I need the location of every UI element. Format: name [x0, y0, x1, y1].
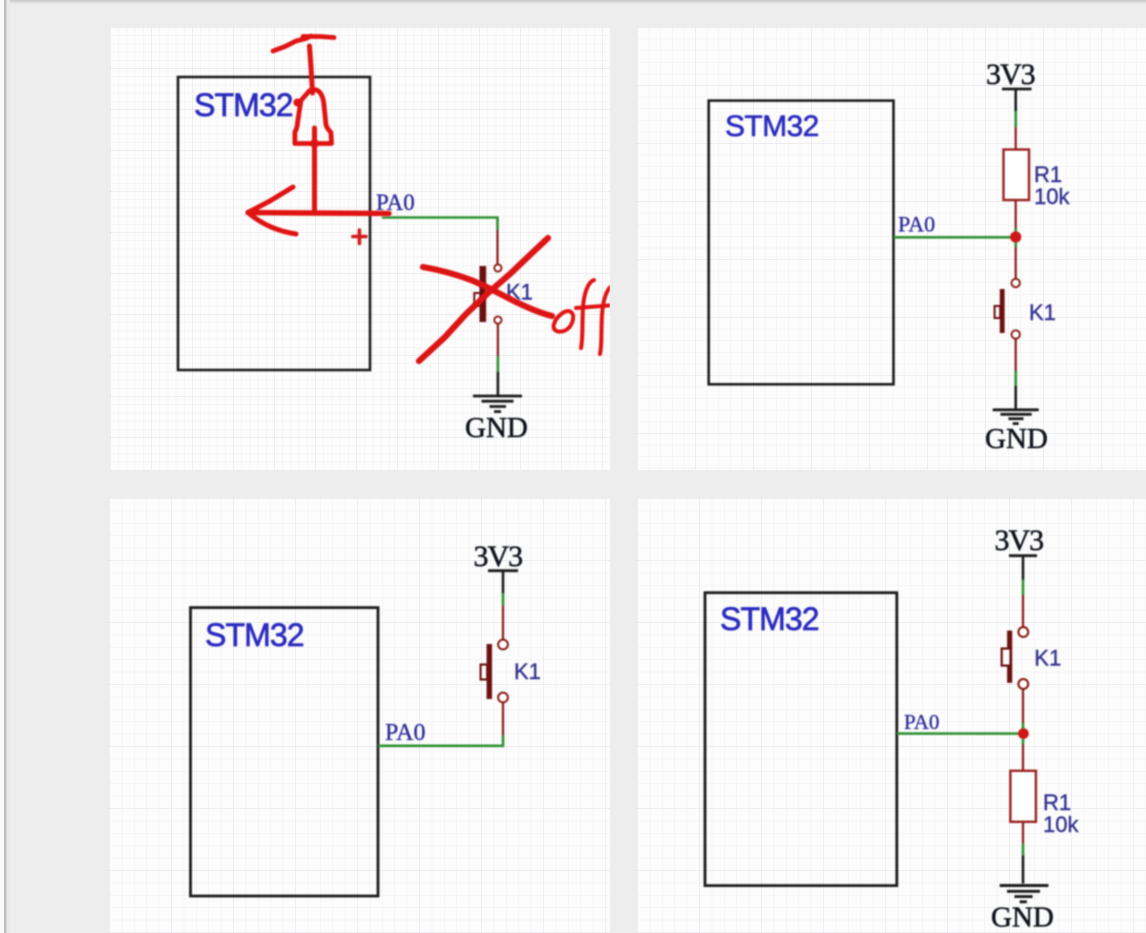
IC STM32 box — [191, 608, 379, 896]
svg-text:K1: K1 — [514, 659, 541, 684]
svg-text:PA0: PA0 — [385, 720, 425, 746]
left scrollbar strip — [0, 0, 4, 933]
wire 3V3 to switch — [1022, 580, 1025, 627]
wire switch to node — [1022, 689, 1024, 729]
pin label PA0 — [904, 710, 939, 734]
svg-text:K1: K1 — [1029, 300, 1056, 325]
svg-text:3V3: 3V3 — [474, 540, 523, 573]
IC STM32 box — [705, 593, 897, 886]
wire R1 to ground — [1022, 822, 1024, 884]
ground GND — [465, 396, 528, 444]
junction node PA0 — [1018, 728, 1029, 739]
wire 3V3 to R1 — [1014, 111, 1017, 149]
resistor R1 10k — [1010, 771, 1079, 837]
IC STM32 box — [178, 77, 370, 370]
switch K1 — [1002, 627, 1062, 689]
pin label PA0 — [898, 212, 935, 237]
svg-text:3V3: 3V3 — [995, 524, 1044, 557]
annotation: handwritten off — [554, 280, 615, 354]
wire PA0 net (green) — [894, 236, 1012, 239]
pin label PA0 — [385, 720, 425, 746]
svg-text:STM32: STM32 — [205, 617, 304, 653]
resistor R1 10k — [1004, 150, 1071, 210]
power 3V3 — [986, 58, 1035, 111]
svg-text:10k: 10k — [1034, 184, 1070, 209]
wire to switch (dark red) — [496, 230, 498, 265]
IC STM32 box — [709, 101, 894, 385]
ground GND — [985, 410, 1048, 455]
junction node PA0 — [1010, 231, 1021, 242]
power 3V3 — [995, 524, 1044, 580]
svg-text:GND: GND — [991, 902, 1054, 933]
annotation: red bulb sketch — [293, 89, 331, 212]
svg-text:3V3: 3V3 — [986, 58, 1035, 91]
window top edge line — [0, 0, 1146, 4]
svg-text:GND: GND — [985, 423, 1048, 455]
wire node to R1 — [1022, 739, 1025, 771]
ground GND — [991, 886, 1054, 933]
annotation: red plus — [353, 230, 366, 244]
switch K1 — [481, 640, 541, 703]
svg-text:STM32: STM32 — [720, 601, 819, 637]
wire PA0 net (green) — [897, 732, 1018, 735]
power 3V3 — [474, 540, 523, 593]
svg-text:K1: K1 — [1034, 646, 1061, 671]
wire switch to ground — [1015, 338, 1017, 409]
annotation: red arrow — [248, 187, 389, 234]
switch K1 — [995, 279, 1056, 339]
wire node to switch — [1014, 242, 1017, 279]
svg-text:PA0: PA0 — [904, 710, 939, 734]
wire PA0 net (green) — [382, 218, 498, 231]
svg-text:10k: 10k — [1043, 812, 1079, 837]
pin label PA0 — [376, 190, 415, 215]
annotation: red tick marks top — [273, 36, 334, 51]
switch K1 — [474, 264, 533, 323]
wire switch to ground — [497, 324, 499, 396]
svg-text:PA0: PA0 — [898, 212, 935, 237]
svg-text:STM32: STM32 — [725, 110, 819, 143]
wire R1 to node — [1015, 200, 1017, 233]
wire 3V3 to switch — [502, 593, 505, 640]
annotation: red vertical stroke — [310, 46, 313, 93]
wire switch to PA0 — [378, 702, 503, 746]
annotation: red X cross over switch — [419, 238, 552, 361]
